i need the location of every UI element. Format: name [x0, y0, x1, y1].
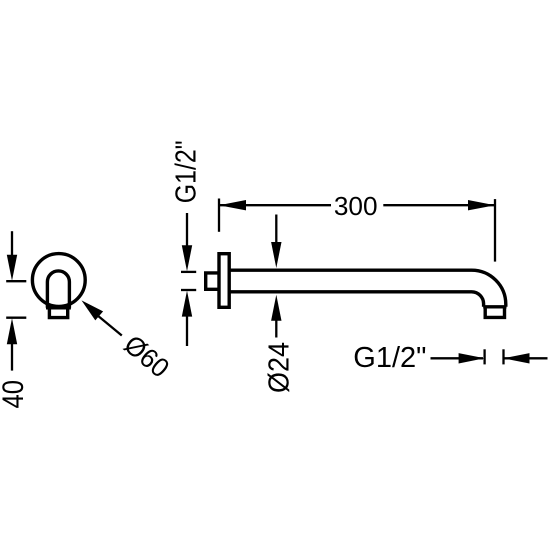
- svg-text:Ø24: Ø24: [263, 342, 295, 393]
- svg-text:40: 40: [0, 380, 29, 409]
- svg-text:G1/2": G1/2": [353, 342, 426, 374]
- svg-text:300: 300: [334, 191, 378, 221]
- svg-text:G1/2": G1/2": [170, 140, 202, 203]
